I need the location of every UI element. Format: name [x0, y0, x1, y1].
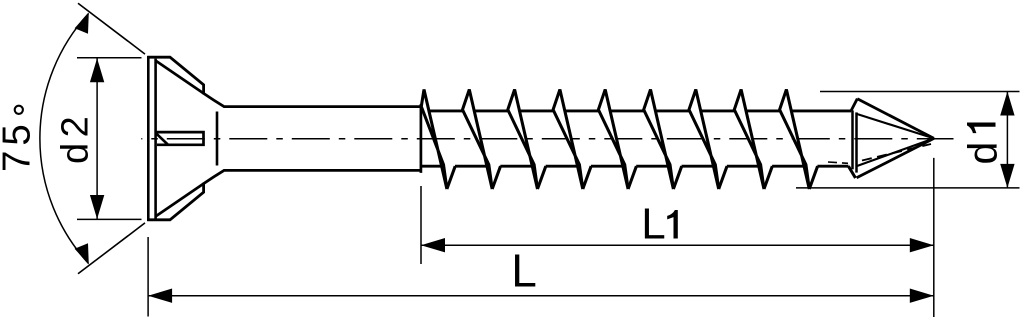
L1 arrow left: [421, 238, 445, 252]
svg-text:d2: d2: [55, 111, 97, 164]
tip cone fan line upper: [857, 114, 934, 138]
d2 label: [55, 111, 97, 164]
thread root bottom line segments: [421, 165, 849, 168]
thread root top line segments: [429, 109, 851, 112]
d1 arrow bottom: [1000, 164, 1014, 188]
thread blade 7: [689, 90, 719, 190]
centerline (screw axis, dash-dot): [141, 138, 953, 140]
d1 extension line top: [820, 91, 1020, 93]
thread blade 3 foot: [538, 166, 546, 189]
75-degree angle arc: [40, 14, 89, 264]
thread blade 4 foot: [583, 166, 591, 189]
head chamfer slant top (inner, parallel): [156, 61, 204, 94]
L1 dimension line: [421, 244, 934, 246]
thread blade 1 foot: [447, 166, 455, 189]
head face vertical line inner: [154, 59, 157, 219]
head cone / shank transition vertical line: [216, 112, 219, 166]
head face vertical line outer: [147, 56, 150, 221]
thread blade 9: [780, 90, 810, 190]
thread blade 5 foot: [628, 166, 636, 189]
hidden root dash left of cone: [828, 162, 848, 163]
tip cone base vertical left: [851, 110, 854, 169]
d1 arrow top: [1000, 92, 1014, 116]
svg-text:75: 75: [0, 119, 39, 172]
75-degree label: [0, 119, 39, 172]
thread blade 8 foot: [764, 166, 772, 189]
tip cone lower edge: [857, 138, 934, 177]
thread blade 1: [421, 90, 447, 190]
d2 arrow bottom: [90, 195, 104, 219]
75-degree arc arrowhead bottom: [75, 243, 89, 264]
L1 arrow right: [910, 238, 934, 252]
tip cone crest edge bottom: [848, 166, 855, 178]
screw head outer outline bottom + shank bottom line: [147, 170, 421, 219]
thread blade 2: [463, 90, 493, 190]
75-degree label degree ring: [15, 106, 23, 114]
d2 extension line top: [77, 57, 142, 59]
tip cone upper edge: [857, 99, 934, 139]
thread blade 9 foot: [809, 166, 817, 189]
tip cone crest edge top: [851, 99, 857, 111]
d1 extension line bottom: [796, 187, 1020, 189]
head chamfer slant bottom (inner, parallel): [156, 184, 204, 217]
svg-text:d: d: [960, 142, 1006, 165]
thread blade 5: [598, 90, 628, 190]
thread blade 3: [508, 90, 538, 190]
svg-text:L: L: [641, 200, 665, 249]
thread blade 8: [734, 90, 764, 190]
thread blade 7 foot: [719, 166, 727, 189]
thread blade 6: [644, 90, 674, 190]
svg-text:L: L: [511, 245, 537, 297]
75-degree angle leg top: [78, 3, 145, 54]
d1 dimension line: [1006, 92, 1008, 188]
75-degree angle leg bottom: [78, 223, 145, 274]
L arrow right: [910, 289, 934, 303]
thread blade 2 foot: [492, 166, 500, 189]
tip cone hidden thread dashed line: [862, 144, 931, 161]
thread blade 6 foot: [673, 166, 681, 189]
tip cone base vertical right: [855, 112, 858, 172]
L1 extension line left: [420, 186, 422, 264]
L dimension line: [148, 295, 934, 297]
L arrow left: [148, 289, 172, 303]
tip cone fan line lower: [857, 138, 934, 166]
d2 extension line bottom: [77, 218, 142, 220]
L / L1 shared extension line right: [933, 158, 935, 317]
slot depth diagonal: [156, 133, 168, 145]
L extension line left: [147, 237, 149, 317]
slot rectangle: [156, 132, 204, 145]
shank end vertical line (thread start): [420, 104, 423, 173]
d1 label: [960, 123, 1006, 165]
75-degree arc arrowhead top: [75, 13, 89, 34]
thread blade 4: [553, 90, 583, 190]
d2 arrow top: [90, 58, 104, 82]
d2 dimension line: [96, 58, 98, 219]
screw head outer outline top + shank top line: [147, 57, 421, 106]
